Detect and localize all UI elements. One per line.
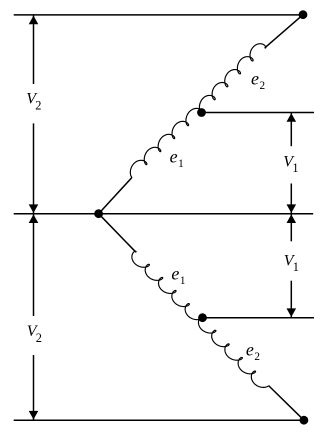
wire V2 lower dimension line (top segment) (33, 214, 35, 316)
arrowhead V2 upper pointing down (29, 204, 39, 213)
wire upper-middle horizontal line (202, 112, 315, 114)
arrowhead V1 upper pointing down (287, 204, 297, 213)
inductor e2 (lower winding) (198, 317, 268, 388)
wire V2 upper dimension line (top segment) (33, 15, 35, 84)
wire lead from center node to lower coil e1 (99, 214, 136, 253)
svg-text:V1: V1 (283, 154, 298, 176)
svg-text:e1: e1 (170, 146, 184, 170)
node e1-e2 upper junction (197, 108, 206, 117)
svg-text:e2: e2 (251, 68, 265, 92)
wire lead from lower coil e2 to bottom-right node (269, 386, 304, 421)
svg-text:V2: V2 (27, 323, 42, 345)
svg-text:V2: V2 (26, 91, 41, 113)
wire bottom horizontal line (14, 419, 304, 421)
node top-right junction (299, 10, 308, 19)
wire V2 lower dimension line (bottom segment) (33, 355, 35, 420)
wire V1 lower dimension line (top segment) (290, 214, 292, 241)
arrowhead V1 upper pointing up (287, 113, 297, 122)
svg-text:e1: e1 (171, 264, 185, 288)
svg-text:V1: V1 (284, 252, 299, 274)
arrowhead V2 lower pointing down (29, 411, 39, 420)
node bottom-right junction (300, 416, 309, 425)
wire lower-middle horizontal line (203, 317, 315, 319)
inductor e1 (lower winding) (132, 251, 203, 319)
wire V1 lower dimension line (bottom segment) (290, 281, 292, 318)
wire middle horizontal line (14, 213, 314, 215)
wire V1 upper dimension line (top segment) (290, 113, 292, 146)
arrowhead V1 lower pointing down (287, 308, 297, 317)
wire lead from top-right node to coil e2 (265, 15, 303, 48)
svg-text:e2: e2 (246, 340, 260, 364)
inductor e1 (upper winding) (130, 108, 202, 177)
wire lead from coil e1 to center node (99, 177, 132, 213)
arrowhead V2 upper pointing up (29, 16, 39, 25)
wire V2 upper dimension line (bottom segment) (33, 123, 35, 213)
wire V1 upper dimension line (bottom segment) (290, 184, 292, 214)
wire top horizontal line (14, 14, 303, 16)
node center junction (94, 209, 103, 218)
arrowhead V1 lower pointing up (287, 214, 297, 223)
arrowhead V2 lower pointing up (29, 214, 39, 223)
node e1-e2 lower junction (198, 313, 207, 322)
inductor e2 (upper winding) (199, 44, 265, 113)
